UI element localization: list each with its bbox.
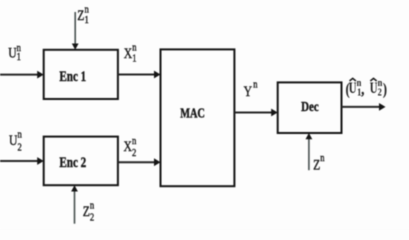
wire U2 input arrow — [0, 160, 38, 162]
wire X2 arrow Enc2 to MAC — [118, 161, 155, 163]
svg-text:2: 2 — [378, 88, 382, 99]
output label (U1hat^n, U2hat^n) — [346, 78, 388, 99]
svg-text:,: , — [361, 81, 364, 98]
decoder box Dec — [278, 82, 342, 133]
wire Z1 noise arrow into Enc1 top — [74, 12, 76, 45]
svg-text:): ) — [383, 81, 387, 99]
svg-text:Zn1: Zn1 — [77, 4, 89, 27]
svg-text:Xn1: Xn1 — [124, 42, 137, 65]
wire Z2 noise arrow into Enc2 bottom — [74, 191, 76, 224]
svg-text:MAC: MAC — [180, 105, 205, 121]
svg-text:Un1: Un1 — [8, 42, 21, 63]
svg-text:Enc 2: Enc 2 — [59, 153, 86, 170]
wire Z noise arrow into Dec bottom — [308, 139, 310, 170]
wire Y arrow MAC to Dec — [234, 112, 271, 114]
channel box MAC — [161, 49, 235, 186]
encoder box Enc 1 — [44, 50, 118, 99]
wire U1 input arrow — [0, 74, 38, 76]
hat over U1 — [350, 78, 356, 81]
hat over U2 — [370, 78, 376, 81]
svg-text:U: U — [370, 79, 378, 96]
encoder box Enc 2 — [44, 137, 118, 186]
wire output arrow from Dec — [342, 106, 380, 108]
svg-text:Dec: Dec — [301, 99, 319, 115]
svg-text:Enc 1: Enc 1 — [59, 68, 86, 85]
wire X1 arrow Enc1 to MAC — [118, 74, 155, 76]
